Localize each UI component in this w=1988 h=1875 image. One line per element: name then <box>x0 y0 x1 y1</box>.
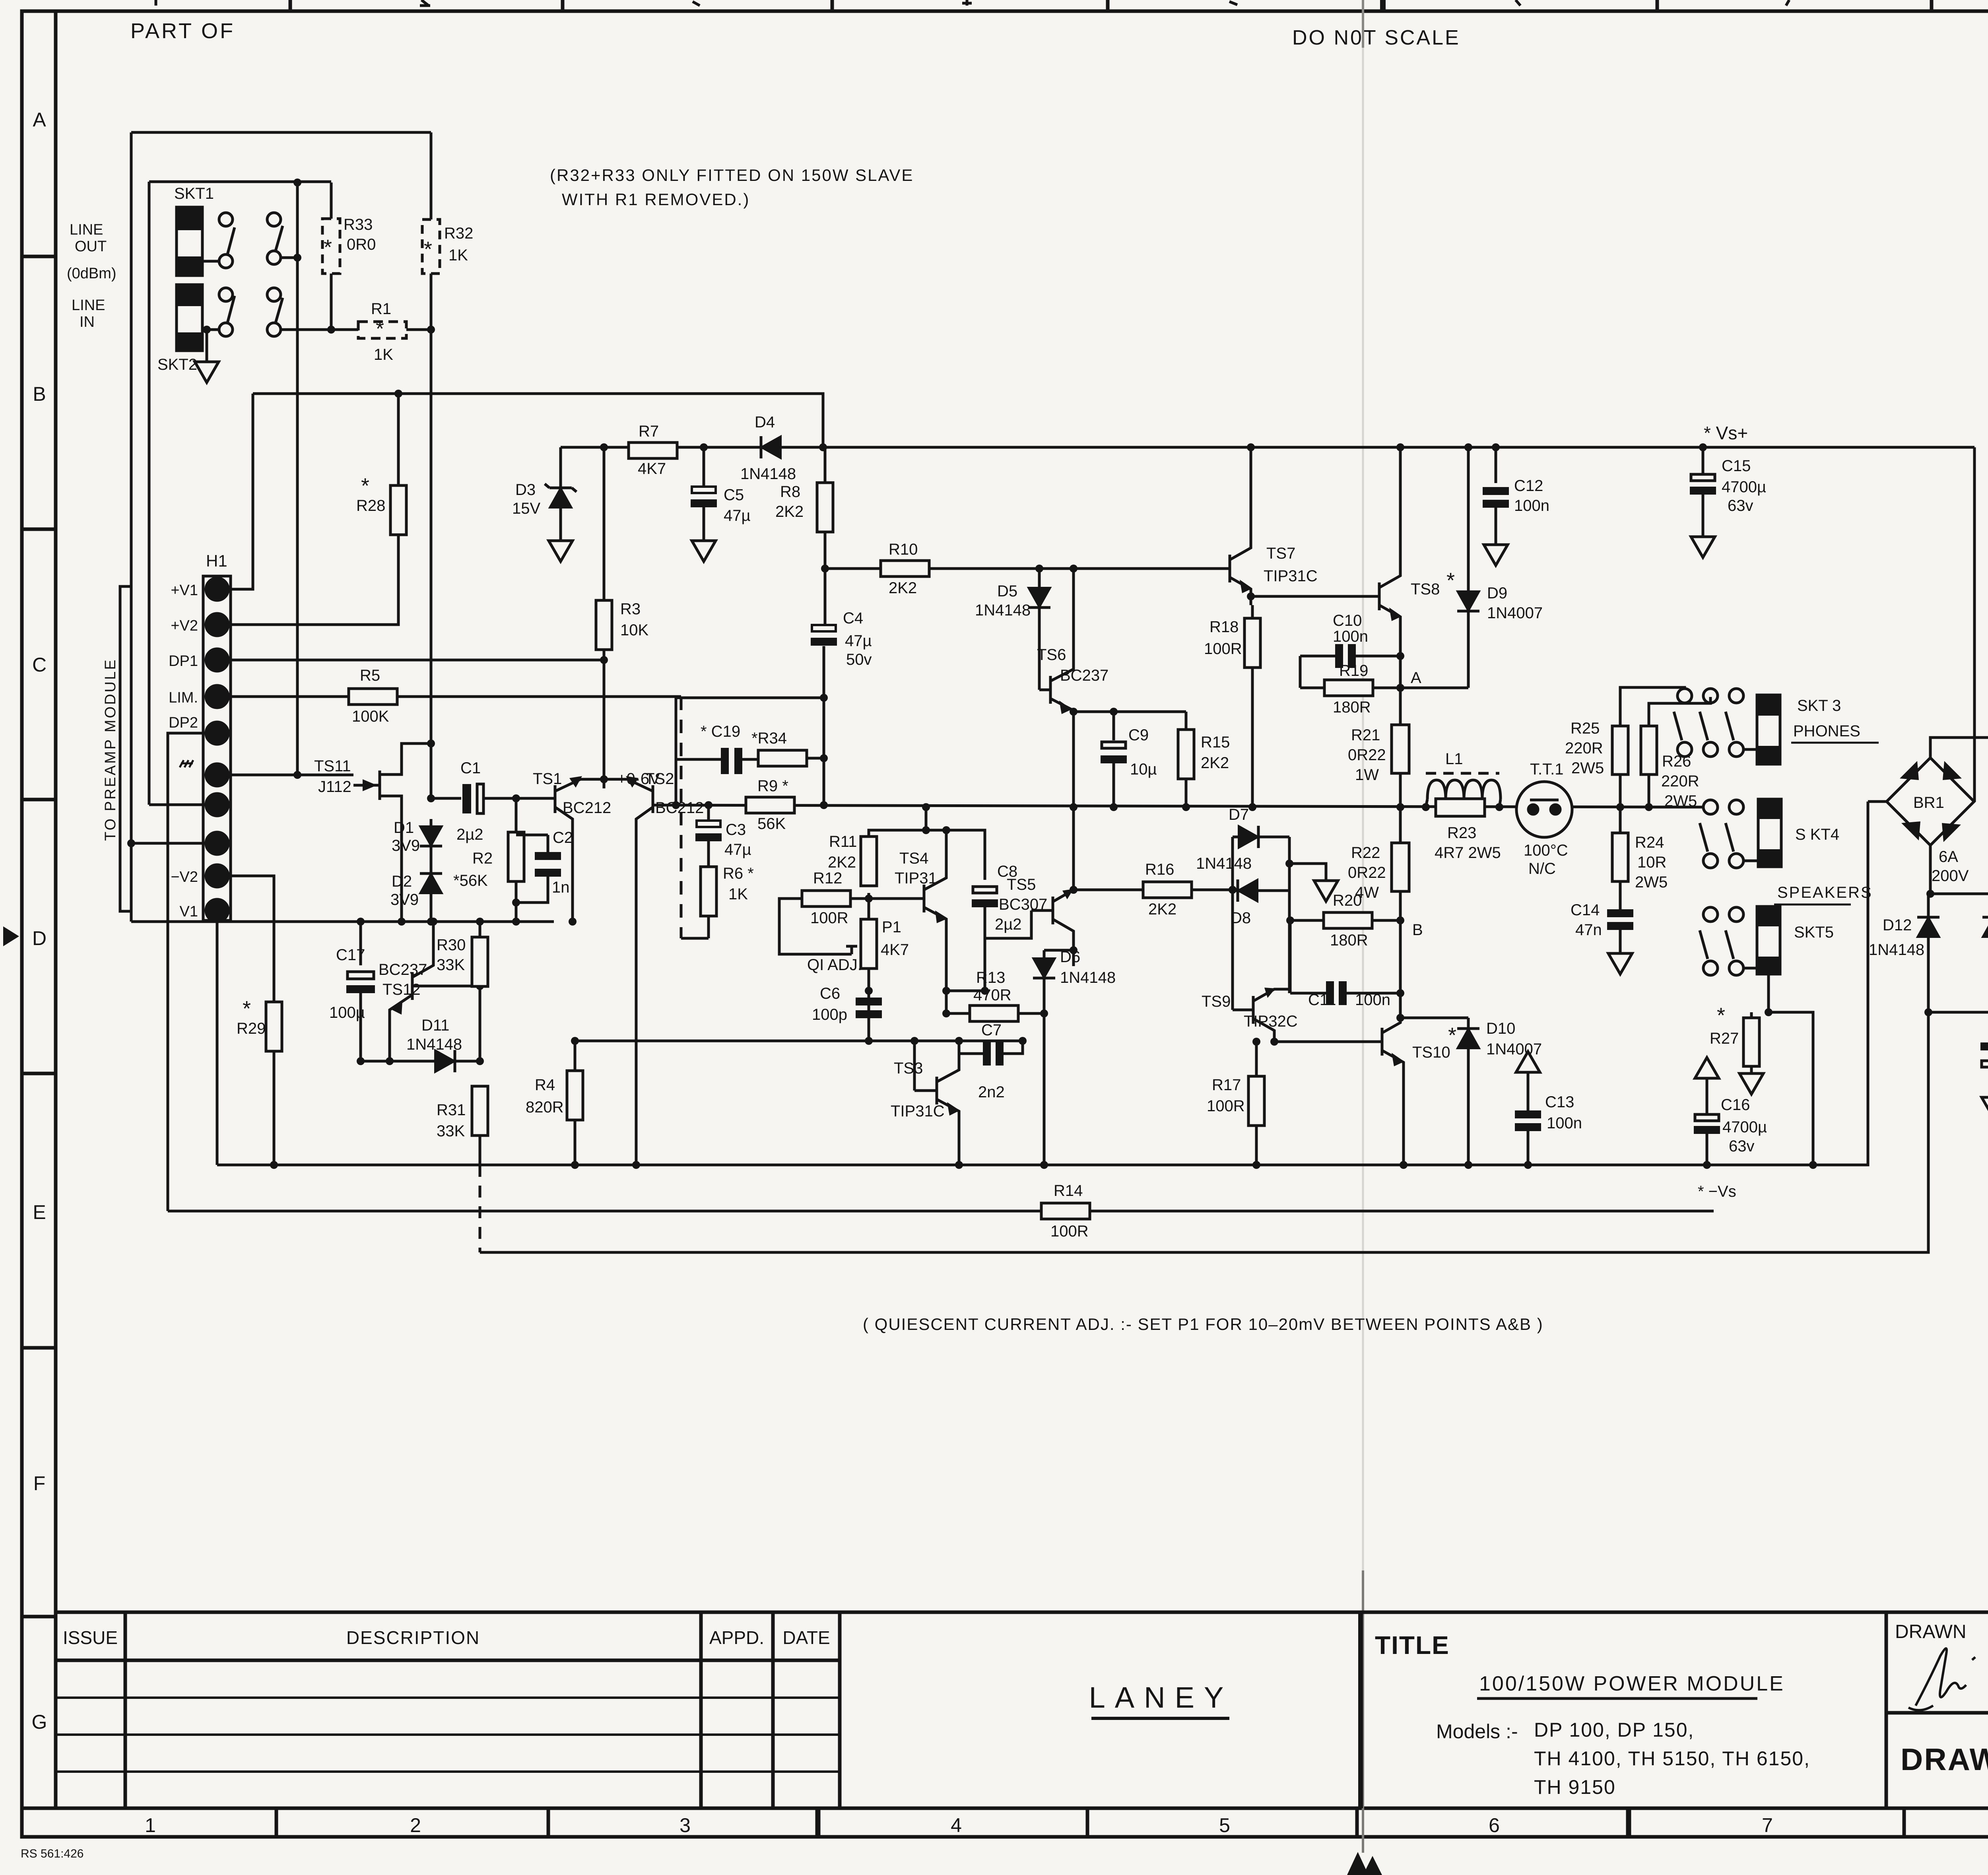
cut top digit 3 <box>693 2 700 6</box>
svg-text:TIP31C: TIP31C <box>891 1102 945 1120</box>
wire D12/D13 link <box>1928 1011 1988 1014</box>
svg-text:4700µ: 4700µ <box>1722 1118 1767 1136</box>
wire DP1 <box>227 659 604 662</box>
resistor R34 <box>758 750 807 766</box>
svg-text:R23: R23 <box>1447 824 1476 842</box>
node rail/C5 <box>700 443 708 451</box>
svg-text:15V: 15V <box>512 500 540 517</box>
svg-text:33K: 33K <box>437 956 465 974</box>
svg-text:2W5: 2W5 <box>1635 873 1668 891</box>
bus -V rail (top common) <box>131 920 554 923</box>
cut top digit 6 <box>1516 0 1520 6</box>
svg-text:100/150W POWER MODULE: 100/150W POWER MODULE <box>1479 1672 1785 1695</box>
wire ground pin to TS11 <box>227 774 353 776</box>
svg-text:100n: 100n <box>1547 1114 1582 1132</box>
svg-text:R32: R32 <box>444 225 473 242</box>
svg-text:TS10: TS10 <box>1412 1044 1450 1061</box>
bottom strip tick 2 <box>547 1808 550 1837</box>
wire contact col2 upper to feed <box>281 256 297 259</box>
svg-text:D7: D7 <box>1229 806 1249 823</box>
svg-text:3V9: 3V9 <box>392 837 420 854</box>
svg-text:47µ: 47µ <box>845 632 872 650</box>
svg-text:4K7: 4K7 <box>638 460 666 477</box>
svg-text:100p: 100p <box>812 1006 847 1023</box>
appd column divider <box>771 1612 775 1808</box>
wire pin7 to inner box line <box>149 804 207 806</box>
resistor R10 <box>881 561 929 576</box>
svg-text:R20: R20 <box>1333 892 1362 909</box>
potentiometer P1 <box>868 899 870 919</box>
diode D7 <box>1231 837 1234 1010</box>
svg-text:R29: R29 <box>237 1020 266 1037</box>
svg-text:C16: C16 <box>1721 1096 1750 1114</box>
svg-text:10µ: 10µ <box>1130 761 1157 778</box>
svg-text:3V9: 3V9 <box>390 891 419 908</box>
svg-text:TS12: TS12 <box>382 981 421 998</box>
resistor R12 <box>802 891 850 906</box>
svg-text:1: 1 <box>145 1814 156 1836</box>
capacitor C16 <box>1695 1058 1719 1078</box>
svg-text:TS1: TS1 <box>533 770 562 788</box>
centre fold crease <box>1362 11 1364 1808</box>
svg-text:100R: 100R <box>1204 640 1242 658</box>
svg-text:TS6: TS6 <box>1037 646 1066 664</box>
svg-text:R16: R16 <box>1145 861 1174 878</box>
svg-text:TO PREAMP MODULE: TO PREAMP MODULE <box>102 658 119 841</box>
svg-text:IN: IN <box>80 314 95 330</box>
diode D9 <box>1467 447 1470 591</box>
svg-text:56K: 56K <box>757 815 786 833</box>
issue header bottom line <box>56 1659 840 1662</box>
svg-text:C2: C2 <box>553 829 573 846</box>
resistor R32 (dashed) <box>430 132 433 219</box>
resistor R18 <box>1251 605 1254 618</box>
svg-text:*: * <box>1446 569 1455 592</box>
svg-text:C12: C12 <box>1514 477 1543 495</box>
wire TS9 emitter row to TS10 base <box>1274 1040 1382 1043</box>
svg-text:B: B <box>1412 921 1423 939</box>
svg-text:*: * <box>376 317 384 341</box>
svg-text:*56K: *56K <box>453 872 488 889</box>
cut top digit 2 <box>421 0 429 6</box>
diode D12 <box>1927 894 1930 917</box>
svg-text:Models :-: Models :- <box>1436 1720 1518 1743</box>
drawn row bottom line <box>1886 1711 1988 1715</box>
svg-text:C15: C15 <box>1722 457 1751 475</box>
svg-text:4R7 2W5: 4R7 2W5 <box>1435 844 1501 862</box>
resistor R26 <box>1648 774 1650 807</box>
svg-text:D5: D5 <box>997 582 1017 600</box>
capacitor C1 <box>427 794 435 802</box>
svg-text:DO N0T SCALE: DO N0T SCALE <box>1292 26 1460 49</box>
capacitor C13 <box>1516 1052 1540 1072</box>
svg-text:C7: C7 <box>981 1021 1002 1039</box>
wire SKT5 bottom junction <box>1767 974 1770 1012</box>
resistor R1 (dashed) <box>358 322 406 338</box>
H1 pin DP1 <box>206 649 228 671</box>
capacitor C9 <box>1110 708 1118 716</box>
capacitor C4 <box>811 625 837 646</box>
top column tick 7 <box>1930 0 1934 11</box>
connector SKT5 <box>1757 906 1780 974</box>
svg-text:D9: D9 <box>1487 584 1507 602</box>
svg-text:DATE: DATE <box>782 1627 830 1648</box>
speaker switch contacts lower group <box>1703 800 1718 814</box>
cut top digit 4 <box>966 0 969 6</box>
resistor R29 <box>266 1002 282 1051</box>
svg-text:B: B <box>33 383 46 405</box>
svg-text:R3: R3 <box>620 600 641 618</box>
title block top line <box>56 1611 1988 1614</box>
bus1 -Vs rail <box>217 802 1868 1165</box>
resistor R21 <box>1399 688 1402 725</box>
capacitor C6 <box>865 987 873 995</box>
connector H1 <box>203 576 231 920</box>
resistor R5 <box>349 689 397 705</box>
left D-row margin pointer <box>3 926 19 946</box>
issue column divider <box>124 1612 127 1808</box>
svg-text:TS3: TS3 <box>894 1060 923 1077</box>
svg-text:+V2: +V2 <box>171 617 198 634</box>
svg-text:(0dBm): (0dBm) <box>67 265 116 282</box>
svg-text:R4: R4 <box>535 1076 555 1094</box>
svg-text:2n2: 2n2 <box>978 1083 1005 1101</box>
svg-text:TS8: TS8 <box>1411 580 1440 598</box>
wire TS5 emitter down <box>1072 931 1075 950</box>
svg-text:1N4148: 1N4148 <box>1869 941 1924 959</box>
svg-text:A: A <box>1411 669 1421 687</box>
resistor R33 (dashed) <box>330 182 333 219</box>
left row divider D/E <box>22 1072 56 1075</box>
top column tick 3 <box>831 0 834 11</box>
inductor L1 with dashed cover <box>1426 772 1499 775</box>
svg-text:BC237: BC237 <box>379 961 427 978</box>
resistor R22 <box>1399 807 1402 843</box>
svg-text:100µ: 100µ <box>329 1004 365 1021</box>
resistor R2 <box>515 798 518 832</box>
resistor R28 <box>390 485 406 535</box>
svg-text:R17: R17 <box>1212 1076 1241 1094</box>
capacitor C17 <box>357 918 365 926</box>
resistor R8 <box>824 447 827 483</box>
bottom strip tick 6 <box>1626 1808 1631 1837</box>
capacitor C14 <box>1607 909 1633 930</box>
H1 pin LIM <box>206 685 228 708</box>
drawn signature <box>1908 1648 1975 1710</box>
H1 pin -V2 <box>206 865 228 887</box>
svg-text:R9 *: R9 * <box>757 777 788 795</box>
svg-text:2: 2 <box>410 1814 421 1836</box>
svg-text:R33: R33 <box>344 216 373 233</box>
left row divider B/C <box>22 528 56 531</box>
svg-text:J112: J112 <box>318 778 351 796</box>
svg-text:QI ADJ.: QI ADJ. <box>807 956 862 974</box>
svg-text:7: 7 <box>1762 1814 1773 1836</box>
svg-text:2W5: 2W5 <box>1571 759 1604 777</box>
diode D6 <box>1043 950 1046 958</box>
svg-text:1K: 1K <box>448 247 468 264</box>
cut top digit 7 <box>1786 0 1789 6</box>
svg-text:+V1: +V1 <box>171 582 198 599</box>
connector SKT3 <box>1757 695 1780 764</box>
bottom strip tick 5 <box>1355 1808 1359 1837</box>
svg-text:C1: C1 <box>460 759 481 777</box>
wire +V2 riser <box>227 535 398 625</box>
svg-text:2K2: 2K2 <box>775 503 804 520</box>
bottom strip tick 3 <box>815 1808 821 1837</box>
svg-text:100°C: 100°C <box>1524 842 1568 859</box>
svg-text:DP 100, DP 150,: DP 100, DP 150, <box>1534 1719 1694 1741</box>
ground arrow off diode column <box>1289 864 1326 881</box>
svg-text:*: * <box>324 235 332 259</box>
diode D4 <box>761 436 781 458</box>
node on inner box top <box>293 179 301 186</box>
capacitor C11 <box>1289 920 1292 993</box>
svg-text:220R: 220R <box>1565 740 1603 757</box>
svg-text:2K2: 2K2 <box>889 579 917 597</box>
wire contact col2 lower to R1 <box>281 328 358 331</box>
svg-text:LIM.: LIM. <box>169 689 198 706</box>
svg-text:1W: 1W <box>1355 766 1379 784</box>
resistor R17 <box>1255 1042 1258 1076</box>
dashed link R31 to bus3 <box>479 1165 481 1252</box>
svg-text:BC212: BC212 <box>563 799 611 817</box>
svg-text:* Vs+: * Vs+ <box>1704 423 1748 443</box>
svg-text:*: * <box>243 997 251 1021</box>
resistor R9 <box>746 797 794 813</box>
svg-text:C17: C17 <box>336 946 365 964</box>
Vs+ rail drop to bridge <box>1973 447 1976 802</box>
svg-text:47µ: 47µ <box>724 841 751 858</box>
node R10/D5 <box>1035 565 1043 573</box>
diode D10 <box>1467 1018 1470 1028</box>
bottom strip tick 4 <box>1086 1808 1089 1837</box>
capacitor C10 <box>1300 655 1336 658</box>
H1 pin DP2 <box>206 722 228 744</box>
svg-text:100R: 100R <box>1207 1097 1245 1115</box>
description column divider <box>699 1612 703 1808</box>
left row divider C/D <box>22 798 56 802</box>
svg-text:C11: C11 <box>1308 991 1336 1009</box>
svg-text:BC212: BC212 <box>655 799 704 817</box>
wire R10 row <box>825 567 881 570</box>
B node drop <box>1399 920 1402 1018</box>
svg-text:N/C: N/C <box>1528 860 1556 877</box>
H1 pin 8 <box>206 832 228 854</box>
resistor R11 <box>868 893 870 1041</box>
svg-text:C4: C4 <box>843 609 863 627</box>
svg-text:DP1: DP1 <box>169 653 198 670</box>
svg-text:200V: 200V <box>1932 867 1969 885</box>
main signal line mid <box>653 805 1685 807</box>
capacitor C2 <box>516 877 548 903</box>
svg-text:TH 4100, TH 5150, TH 6150,: TH 4100, TH 5150, TH 6150, <box>1534 1747 1810 1770</box>
svg-text:DP2: DP2 <box>169 714 198 731</box>
svg-text:3: 3 <box>679 1814 691 1836</box>
svg-text:1N4148: 1N4148 <box>740 465 796 483</box>
ground arrow below C5 <box>692 541 716 561</box>
wire TS6 emitter row <box>1074 710 1186 713</box>
top column tick 5 <box>1380 0 1386 11</box>
svg-text:SKT 3: SKT 3 <box>1797 697 1841 714</box>
svg-text:4700µ: 4700µ <box>1722 478 1766 496</box>
svg-text:50v: 50v <box>846 651 872 668</box>
svg-text:A: A <box>33 109 46 131</box>
speaker switch contacts upper group <box>1677 689 1692 703</box>
node rail/R3 <box>600 443 608 451</box>
Vs+ top rail <box>561 446 1974 449</box>
svg-text:L1: L1 <box>1445 750 1463 768</box>
issue row line 4 <box>56 1770 840 1773</box>
capacitor C3 <box>707 805 710 821</box>
svg-text:R27: R27 <box>1710 1030 1739 1047</box>
svg-text:4K7: 4K7 <box>881 941 909 959</box>
wire DP2 to lower bus <box>168 733 207 1211</box>
svg-text:R31: R31 <box>437 1101 466 1119</box>
svg-text:C5: C5 <box>724 486 744 504</box>
BR1 left corner wire to speakers riser <box>1868 800 1887 803</box>
svg-text:TITLE: TITLE <box>1375 1631 1450 1660</box>
svg-text:R30: R30 <box>437 936 466 954</box>
svg-text:5: 5 <box>1219 1814 1230 1836</box>
svg-text:BR1: BR1 <box>1913 794 1944 811</box>
svg-text:F: F <box>33 1472 46 1495</box>
zener D3 <box>559 447 562 488</box>
svg-text:100n: 100n <box>1514 497 1549 514</box>
ground arrow below D3 <box>549 541 573 561</box>
svg-text:6A: 6A <box>1939 848 1958 866</box>
connector SKT1 <box>177 207 202 276</box>
inner input box left vertical <box>148 182 151 805</box>
svg-text:TS9: TS9 <box>1202 993 1231 1010</box>
wire SKT1 to contacts <box>202 260 219 263</box>
svg-text:R5: R5 <box>360 667 380 684</box>
svg-text:1K: 1K <box>728 885 748 903</box>
resistor R13 <box>970 1005 1018 1021</box>
svg-text:TS4: TS4 <box>899 850 928 867</box>
svg-text:*R34: *R34 <box>751 730 787 747</box>
svg-text:D11: D11 <box>421 1017 449 1034</box>
svg-text:BC237: BC237 <box>1060 667 1109 684</box>
svg-text:D12: D12 <box>1883 916 1912 934</box>
top column tick 2 <box>561 0 565 11</box>
svg-text:LINE: LINE <box>70 221 103 238</box>
svg-text:R15: R15 <box>1201 734 1230 751</box>
svg-text:47µ: 47µ <box>724 507 751 524</box>
svg-text:* C19: * C19 <box>701 723 740 740</box>
svg-text:1N4148: 1N4148 <box>975 602 1031 619</box>
svg-text:C13: C13 <box>1545 1093 1574 1111</box>
svg-text:S KT4: S KT4 <box>1795 826 1839 843</box>
resistor R25 <box>1619 774 1622 807</box>
svg-text:SKT5: SKT5 <box>1794 924 1834 941</box>
svg-text:6: 6 <box>1489 1814 1500 1836</box>
svg-text:WITH R1 REMOVED.): WITH R1 REMOVED.) <box>562 190 750 209</box>
resistor R15 <box>1185 712 1188 730</box>
svg-text:R25: R25 <box>1571 720 1600 737</box>
wire pin8 to boundary line <box>131 842 207 845</box>
svg-text:LINE: LINE <box>72 297 105 314</box>
svg-text:SPEAKERS: SPEAKERS <box>1777 884 1873 901</box>
svg-text:2K2: 2K2 <box>828 854 856 871</box>
svg-text:D: D <box>32 927 47 949</box>
inner drawing frame left <box>54 11 58 1808</box>
svg-text:R14: R14 <box>1054 1182 1083 1200</box>
bottom strip tick 7 <box>1903 1808 1906 1837</box>
svg-text:R11: R11 <box>829 833 857 850</box>
svg-text:T.T.1: T.T.1 <box>1530 761 1563 778</box>
wire -V2 to R29 <box>227 876 274 1002</box>
bus3 lower link bus <box>480 1012 1928 1252</box>
resistor R19 <box>1300 687 1324 689</box>
wire C4 riser <box>824 569 827 625</box>
svg-text:R8: R8 <box>780 483 800 501</box>
svg-text:SKT2: SKT2 <box>157 356 197 373</box>
inner input box top <box>149 181 331 183</box>
svg-text:1K: 1K <box>374 346 393 363</box>
resistor R20 <box>1290 919 1324 922</box>
svg-text:OUT: OUT <box>75 238 107 255</box>
svg-text:100R: 100R <box>1050 1223 1089 1240</box>
bus2 R14 bus <box>168 1210 1714 1213</box>
svg-text:0R22: 0R22 <box>1348 746 1386 764</box>
wire SKT2 ground drop <box>206 330 208 362</box>
svg-text:R28: R28 <box>356 497 385 514</box>
left row divider F/G <box>22 1615 56 1619</box>
capacitor C18 <box>1980 1042 1988 1050</box>
bottom number strip top line <box>22 1807 1988 1810</box>
signal line from R1 junction down <box>430 330 433 798</box>
H1 pin V1 <box>206 899 228 922</box>
svg-text:100R: 100R <box>810 909 848 927</box>
bottom centre fold marker <box>1347 1852 1369 1875</box>
svg-text:R24: R24 <box>1635 834 1664 851</box>
svg-text:P1: P1 <box>882 918 901 936</box>
svg-text:D2: D2 <box>392 873 412 890</box>
wire V1 pin drop <box>216 921 219 1165</box>
wire LIM with R5 <box>227 695 349 698</box>
resistor R14 <box>1041 1203 1090 1219</box>
capacitor C19 <box>721 748 729 774</box>
svg-text:C14: C14 <box>1571 901 1600 919</box>
svg-text:LANEY: LANEY <box>1089 1681 1233 1714</box>
svg-text:820R: 820R <box>526 1099 564 1116</box>
svg-text:D3: D3 <box>515 481 536 499</box>
dashed preamp limit line <box>680 697 683 938</box>
zener D1 <box>430 819 433 826</box>
resistor R4 <box>574 1041 577 1071</box>
svg-text:R12: R12 <box>813 870 842 887</box>
bottom strip tick 1 <box>275 1808 278 1837</box>
svg-text:SKT1: SKT1 <box>174 185 214 202</box>
svg-text:APPD.: APPD. <box>709 1627 764 1648</box>
svg-text:33K: 33K <box>437 1122 465 1140</box>
svg-text:TS5: TS5 <box>1007 876 1036 893</box>
cut top digit 1 <box>155 0 157 6</box>
svg-text:100n: 100n <box>1333 628 1368 645</box>
svg-text:1N4148: 1N4148 <box>1060 969 1116 986</box>
svg-text:D4: D4 <box>755 413 775 431</box>
svg-text:E: E <box>33 1201 46 1223</box>
resistor R30 <box>476 918 484 926</box>
svg-text:*: * <box>1717 1003 1725 1027</box>
+V1 feed rail <box>253 394 823 447</box>
svg-text:* −Vs: * −Vs <box>1698 1183 1736 1200</box>
node rail/R10riser <box>819 443 827 451</box>
capacitor C8 <box>946 830 985 880</box>
svg-text:TH 9150: TH 9150 <box>1534 1776 1616 1798</box>
capacitor C15 <box>1699 443 1707 451</box>
